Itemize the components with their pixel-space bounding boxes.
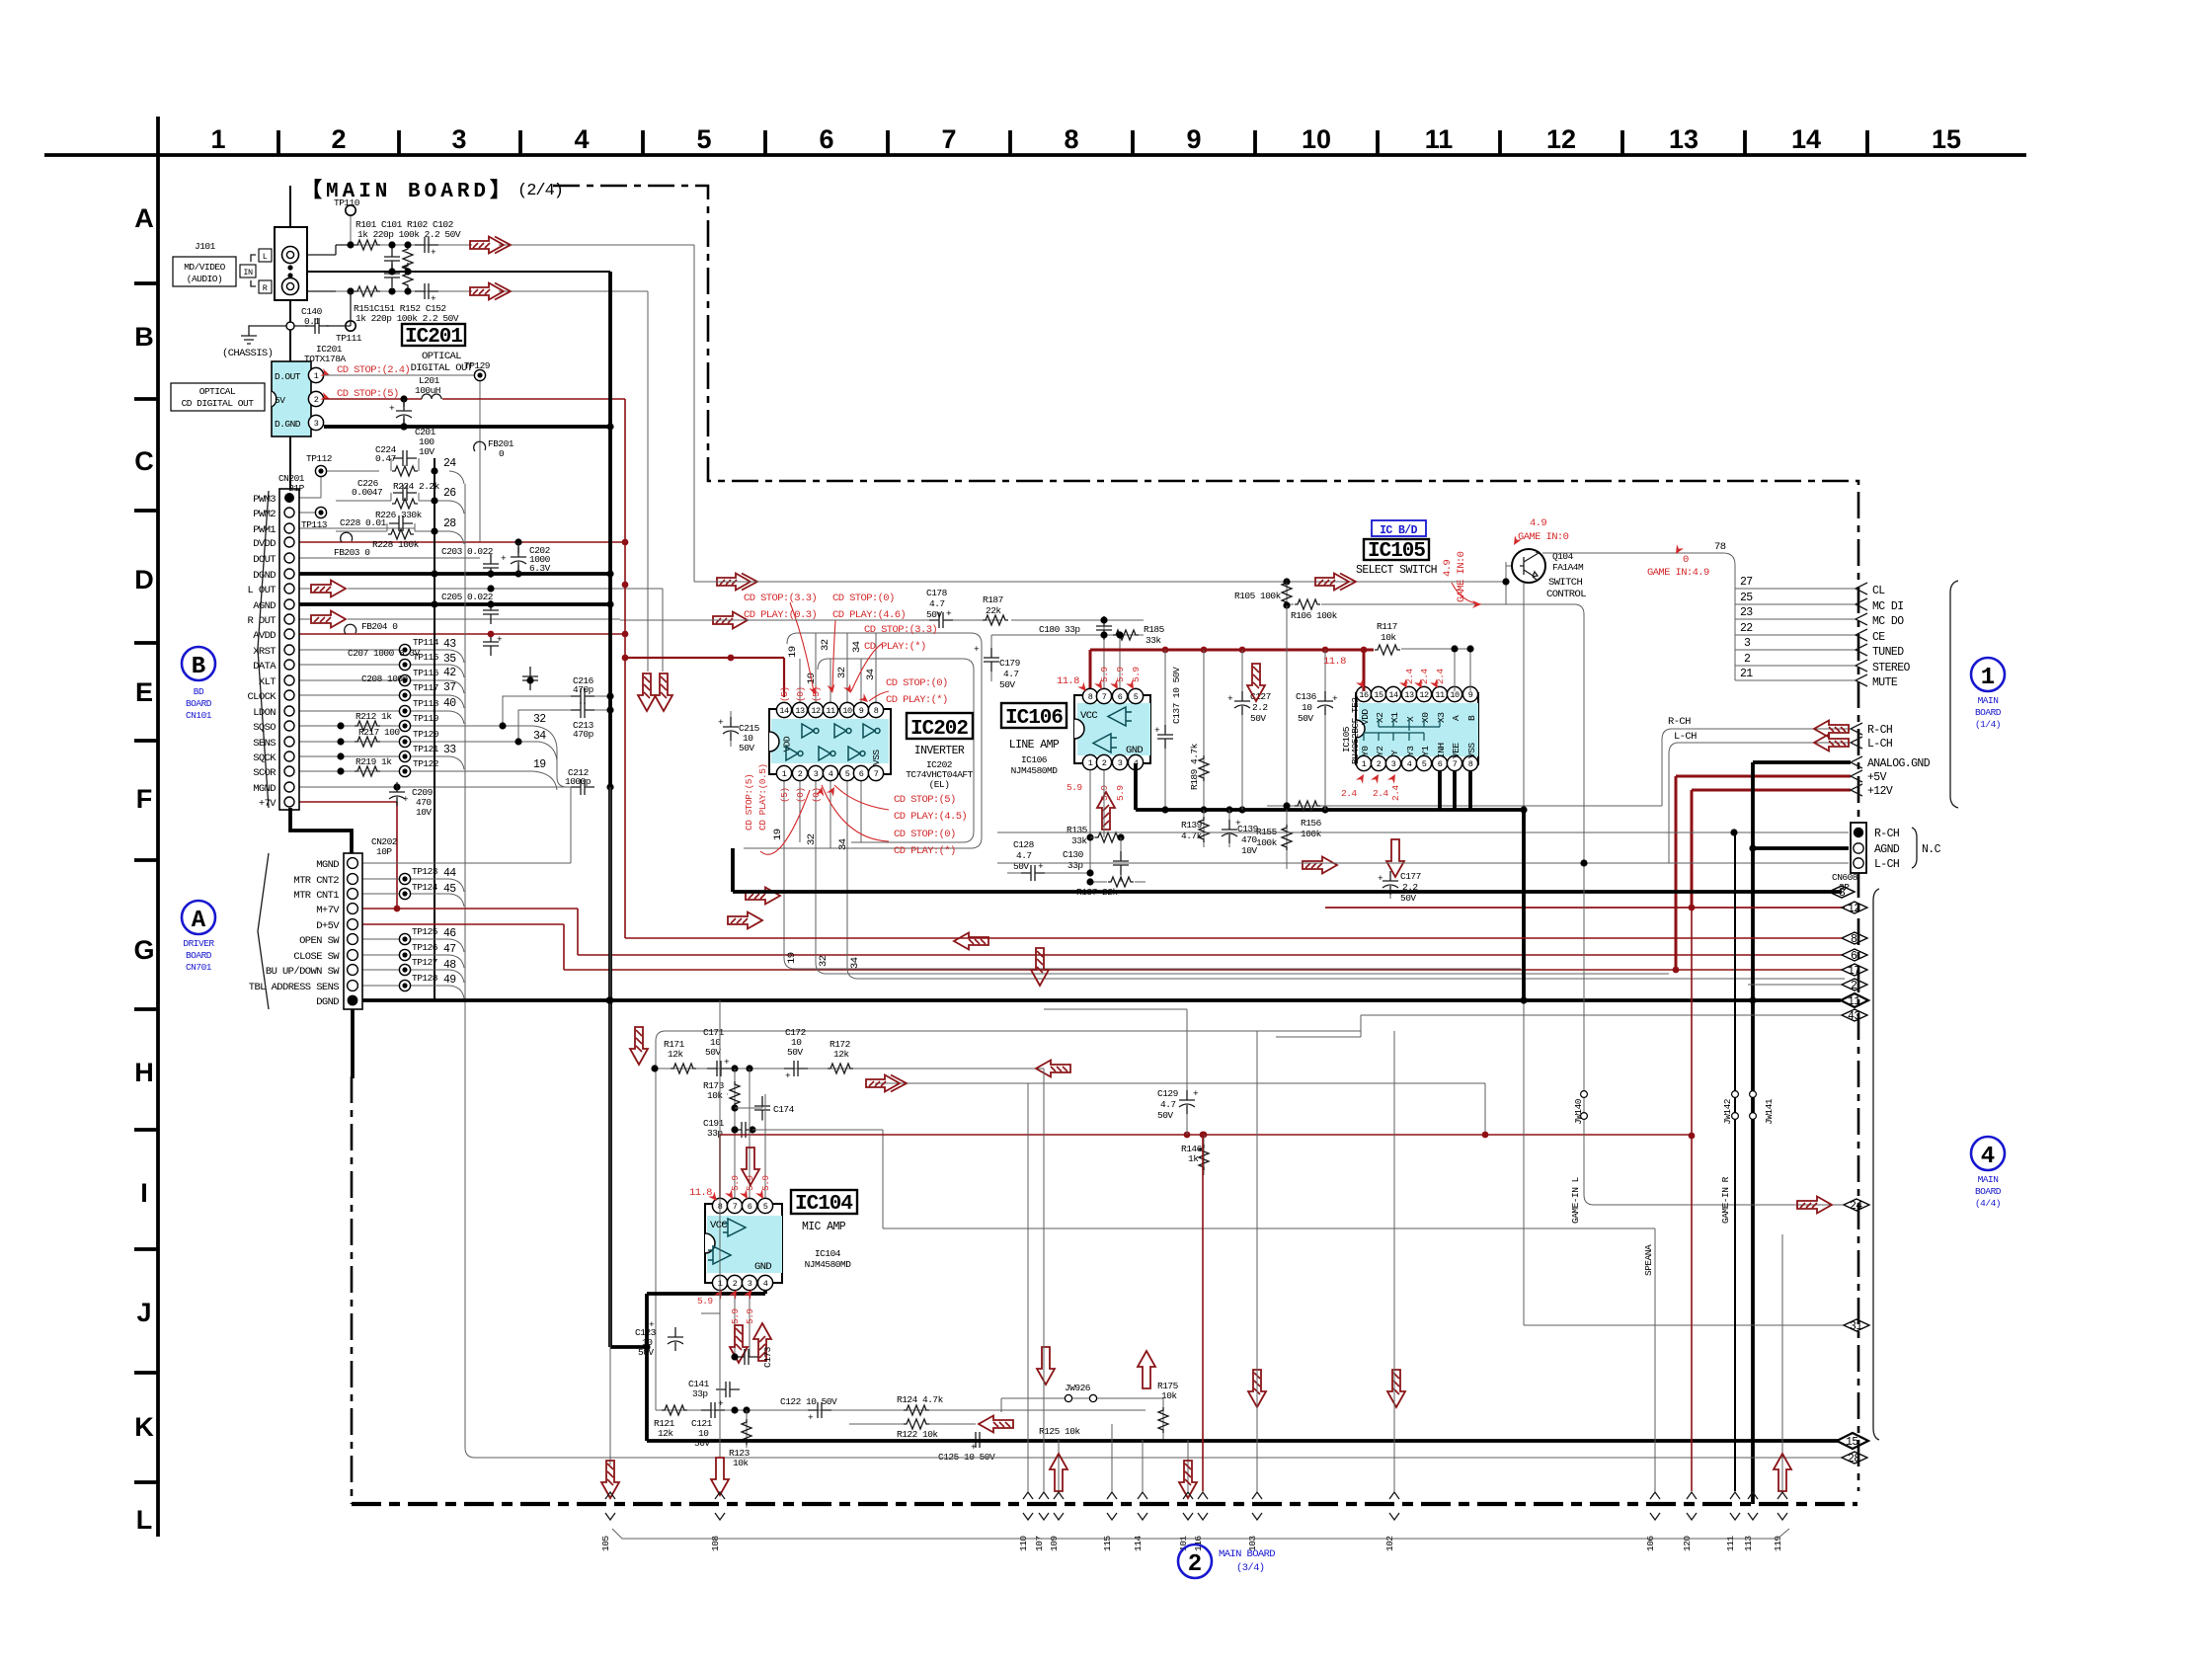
svg-text:19: 19 xyxy=(533,758,546,771)
svg-text:8: 8 xyxy=(874,706,879,716)
svg-text:+: + xyxy=(649,1319,655,1330)
svg-text:SCOR: SCOR xyxy=(253,767,276,779)
svg-text:+: + xyxy=(808,1412,814,1423)
wire: +7V red xyxy=(299,802,397,909)
svg-text:3: 3 xyxy=(1391,759,1396,769)
svg-text:7: 7 xyxy=(1102,692,1107,702)
capacitor C139 470 10V xyxy=(1228,810,1230,847)
wire: Q104 collector down xyxy=(1523,583,1525,810)
svg-text:40: 40 xyxy=(443,697,456,710)
svg-text:2.4: 2.4 xyxy=(1341,788,1357,799)
svg-text:GAME IN:0: GAME IN:0 xyxy=(1456,551,1467,602)
svg-text:114: 114 xyxy=(1133,1536,1144,1551)
svg-text:TP113: TP113 xyxy=(301,519,328,530)
svg-text:12: 12 xyxy=(1546,124,1576,154)
capacitor C172 10 50V xyxy=(784,1061,808,1076)
svg-text:15: 15 xyxy=(1932,124,1961,154)
svg-text:SWITCH: SWITCH xyxy=(1548,577,1583,589)
capacitor C141 33p xyxy=(716,1382,740,1397)
svg-text:IC106: IC106 xyxy=(1005,707,1063,730)
svg-text:CD PLAY:(*): CD PLAY:(*) xyxy=(886,694,948,706)
svg-text:0.0047: 0.0047 xyxy=(352,487,382,498)
svg-text:D+5V: D+5V xyxy=(316,920,340,932)
svg-text:34: 34 xyxy=(851,641,863,653)
wire: C178 R187 line xyxy=(620,619,1144,621)
IC106 body xyxy=(1074,695,1150,763)
svg-text:CD STOP:(5): CD STOP:(5) xyxy=(894,794,956,806)
svg-text:TP127: TP127 xyxy=(412,957,437,968)
svg-text:CD STOP:(3.3): CD STOP:(3.3) xyxy=(864,624,937,636)
svg-text:C: C xyxy=(134,446,154,476)
svg-text:BOARD: BOARD xyxy=(186,698,212,709)
red annotations CD STOP/PLAY xyxy=(744,593,967,857)
svg-text:11.8: 11.8 xyxy=(1323,656,1346,668)
wire: PWM3 to TP112 xyxy=(299,471,379,498)
svg-text:5: 5 xyxy=(1134,692,1139,702)
svg-text:TP129: TP129 xyxy=(464,360,491,371)
wire: inner loop xyxy=(818,659,974,842)
svg-text:4.7: 4.7 xyxy=(1016,850,1032,861)
resistor R212 1k xyxy=(355,721,380,731)
capacitor C129 4.7 50V xyxy=(1044,1009,1187,1135)
jumper JW926 xyxy=(1001,1397,1163,1399)
down arrow x647 xyxy=(630,1027,648,1065)
wire: red VCC bus xyxy=(1090,650,1374,695)
svg-text:DATA: DATA xyxy=(253,661,276,673)
svg-text:SQSO: SQSO xyxy=(253,722,276,734)
svg-text:C178: C178 xyxy=(926,588,948,598)
svg-text:32: 32 xyxy=(820,639,831,651)
svg-text:VSS: VSS xyxy=(1466,743,1477,758)
svg-text:R: R xyxy=(263,283,268,293)
svg-text:(1/4): (1/4) xyxy=(1975,719,2001,730)
svg-text:LINE AMP: LINE AMP xyxy=(1009,739,1060,752)
svg-text:K: K xyxy=(134,1412,154,1442)
svg-text:C228 0.01: C228 0.01 xyxy=(340,517,387,528)
svg-text:8: 8 xyxy=(1468,759,1473,769)
svg-text:33k: 33k xyxy=(1071,835,1087,846)
wire: AVDD red xyxy=(299,633,625,635)
svg-text:+: + xyxy=(403,794,409,805)
testpoint TP110 xyxy=(350,210,352,245)
svg-text:CD PLAY:(0.3): CD PLAY:(0.3) xyxy=(744,609,817,621)
IC201 label box xyxy=(402,324,465,346)
svg-text:B: B xyxy=(1466,715,1477,721)
svg-text:R217 100: R217 100 xyxy=(358,727,400,738)
svg-text:IC105: IC105 xyxy=(1368,540,1425,563)
svg-text:105: 105 xyxy=(600,1536,611,1551)
svg-text:43: 43 xyxy=(443,638,456,651)
svg-text:C173: C173 xyxy=(762,1346,773,1368)
svg-text:100uH: 100uH xyxy=(415,385,440,396)
+12V xyxy=(1692,790,1851,908)
svg-text:8: 8 xyxy=(1088,692,1093,702)
svg-text:NJM4580MD: NJM4580MD xyxy=(1011,765,1059,776)
connector J101 RCA body xyxy=(275,227,307,300)
pins 6,7,8 to GND xyxy=(1440,771,1470,810)
connector CN608 xyxy=(997,832,1849,863)
svg-text:MAIN: MAIN xyxy=(1978,695,1999,706)
svg-text:1000p: 1000p xyxy=(565,776,592,787)
svg-text:CLOCK: CLOCK xyxy=(247,691,276,703)
svg-text:NJM4580MD: NJM4580MD xyxy=(805,1259,852,1270)
capacitor C136 10 50V xyxy=(1324,650,1326,810)
svg-text:VCC: VCC xyxy=(1080,710,1097,722)
svg-text:+: + xyxy=(501,553,507,564)
svg-text:10: 10 xyxy=(1302,124,1331,154)
svg-text:35: 35 xyxy=(443,653,456,666)
svg-text:10: 10 xyxy=(1302,702,1312,713)
svg-text:1k: 1k xyxy=(1188,1153,1199,1164)
resistor R135 33k xyxy=(1095,832,1121,842)
svg-text:XRST: XRST xyxy=(253,646,276,658)
resistor R137 22k xyxy=(1090,881,1145,883)
wire: bottom cluster xyxy=(656,1409,1145,1411)
board boundary dash-dot xyxy=(553,186,1858,1491)
row letters xyxy=(133,203,154,1535)
svg-text:45: 45 xyxy=(443,883,456,896)
label A board xyxy=(182,901,215,934)
svg-text:IN: IN xyxy=(243,268,253,277)
svg-text:C205 0.022: C205 0.022 xyxy=(441,592,494,602)
svg-text:108: 108 xyxy=(710,1536,721,1551)
svg-text:21: 21 xyxy=(1740,668,1753,680)
bracket for tag group xyxy=(1873,889,1879,1440)
capacitor C171 10 50V xyxy=(707,1061,731,1076)
svg-text:1k 220p 100k 2.2 50V: 1k 220p 100k 2.2 50V xyxy=(357,229,461,240)
capacitor C215 10 50V xyxy=(730,711,732,747)
svg-text:100k: 100k xyxy=(1256,837,1278,848)
resistor R187 22k xyxy=(983,615,1008,625)
svg-text:CD PLAY:(4.6): CD PLAY:(4.6) xyxy=(832,609,906,621)
svg-text:4: 4 xyxy=(763,1279,768,1289)
svg-text:MUTE: MUTE xyxy=(1872,676,1898,689)
svg-text:0: 0 xyxy=(1683,554,1689,566)
svg-text:120: 120 xyxy=(1682,1536,1693,1551)
svg-text:26: 26 xyxy=(443,487,456,500)
svg-text:50V: 50V xyxy=(926,609,942,620)
resistor R106 100k xyxy=(1295,599,1320,609)
svg-text:AGND: AGND xyxy=(1874,843,1900,856)
svg-text:Y2: Y2 xyxy=(1375,746,1385,756)
svg-text:48: 48 xyxy=(443,959,456,972)
svg-text:B: B xyxy=(192,654,205,680)
svg-text:12k: 12k xyxy=(833,1049,849,1060)
svg-text:L-CH: L-CH xyxy=(1867,738,1892,751)
svg-text:JW142: JW142 xyxy=(1722,1098,1733,1125)
svg-text:B: B xyxy=(134,322,154,352)
svg-text:15: 15 xyxy=(1374,690,1383,700)
+5V xyxy=(1676,776,1851,970)
svg-text:33p: 33p xyxy=(707,1128,723,1139)
wire: JW141 xyxy=(1750,1091,1757,1098)
svg-text:3: 3 xyxy=(1839,887,1846,900)
pin circles xyxy=(284,493,294,807)
svg-text:28: 28 xyxy=(443,517,456,530)
svg-text:34: 34 xyxy=(837,838,849,850)
svg-text:TBL ADDRESS SENS: TBL ADDRESS SENS xyxy=(249,982,340,993)
wire: GAME-IN R xyxy=(1734,832,1736,1491)
capacitor C191 33p xyxy=(732,1122,755,1138)
pin circles xyxy=(348,858,358,1006)
svg-text:2: 2 xyxy=(1851,980,1857,992)
svg-text:2.4: 2.4 xyxy=(1373,788,1388,799)
svg-text:17: 17 xyxy=(1848,965,1860,978)
svg-text:(AUDIO): (AUDIO) xyxy=(187,274,222,284)
svg-text:BOARD: BOARD xyxy=(1975,707,2002,718)
svg-text:32: 32 xyxy=(806,833,818,845)
inverter gates xyxy=(802,724,819,738)
svg-text:1: 1 xyxy=(1088,758,1093,768)
pin circles bottom 1..7 xyxy=(776,765,791,780)
wire: red 11.8 bus xyxy=(720,1134,1692,1136)
wire: vertical through RCA xyxy=(289,186,291,361)
svg-text:3: 3 xyxy=(314,419,319,429)
R-CH / L-CH lines xyxy=(1662,729,1853,863)
wire: 31 line xyxy=(1524,1324,1844,1326)
svg-text:XLT: XLT xyxy=(259,676,276,688)
svg-text:5: 5 xyxy=(1422,759,1427,769)
svg-text:CN101: CN101 xyxy=(186,710,212,721)
svg-text:(5): (5) xyxy=(811,686,822,702)
svg-text:2: 2 xyxy=(1744,653,1751,666)
svg-text:2: 2 xyxy=(733,1279,738,1289)
svg-text:(5): (5) xyxy=(779,787,790,803)
capacitor C224 / resistor R224 combo xyxy=(391,458,419,471)
label B board xyxy=(182,647,215,680)
ground (CHASSIS) xyxy=(249,326,290,336)
svg-text:R-CH: R-CH xyxy=(1867,724,1892,737)
capacitor C128 4.7 50V xyxy=(1007,872,1090,874)
svg-text:G: G xyxy=(133,935,154,965)
border ruler top xyxy=(44,153,2026,157)
svg-text:Y3: Y3 xyxy=(1405,746,1416,756)
wire: top pin stubs xyxy=(800,633,876,703)
capacitor C130 33p xyxy=(1120,851,1122,882)
resistor R124 4.7k xyxy=(904,1405,929,1415)
svg-text:470: 470 xyxy=(1241,834,1257,845)
svg-text:1: 1 xyxy=(314,371,319,381)
capacitor C151 220p xyxy=(384,264,400,287)
junction dots on +7V M+7V xyxy=(394,906,401,912)
svg-text:13: 13 xyxy=(795,706,805,716)
svg-text:CD PLAY:(0.5): CD PLAY:(0.5) xyxy=(757,763,768,831)
arrows xyxy=(1037,1347,1055,1385)
svg-text:1: 1 xyxy=(210,124,225,154)
down arrow and C177 xyxy=(1386,839,1404,877)
svg-text:A: A xyxy=(192,908,206,934)
svg-text:GAME IN:4.9: GAME IN:4.9 xyxy=(1647,567,1709,579)
svg-text:10V: 10V xyxy=(1241,845,1257,856)
fanout bus and curves with pin numbers xyxy=(449,471,464,769)
svg-text:15: 15 xyxy=(1846,1436,1858,1449)
red vertical x633 xyxy=(625,399,1842,938)
svg-text:OPTICAL: OPTICAL xyxy=(422,351,461,362)
IC104 body xyxy=(705,1204,782,1283)
svg-text:6: 6 xyxy=(1438,759,1443,769)
wire: MGND xyxy=(361,787,571,863)
svg-text:4: 4 xyxy=(1407,759,1412,769)
rotated 19/32/34 labels around IC202 xyxy=(772,639,877,969)
svg-text:DRIVER: DRIVER xyxy=(183,938,214,949)
bottom bus dash-dot thick xyxy=(352,1502,1857,1506)
svg-text:106: 106 xyxy=(1645,1536,1656,1551)
svg-text:(2/4): (2/4) xyxy=(517,182,563,200)
svg-text:X2: X2 xyxy=(1375,712,1385,723)
svg-text:3: 3 xyxy=(451,124,466,154)
capacitor C173 xyxy=(735,1349,758,1365)
svg-text:6: 6 xyxy=(1118,692,1123,702)
svg-text:OPEN SW: OPEN SW xyxy=(299,935,340,947)
svg-text:3: 3 xyxy=(748,1279,752,1289)
resistor R102 100k xyxy=(403,246,413,272)
svg-text:3: 3 xyxy=(1118,758,1123,768)
svg-text:+: + xyxy=(1378,873,1383,884)
svg-text:MC DI: MC DI xyxy=(1872,600,1904,613)
svg-text:33: 33 xyxy=(443,744,456,756)
svg-text:CD DIGITAL OUT: CD DIGITAL OUT xyxy=(182,398,255,409)
svg-text:28: 28 xyxy=(1848,1453,1860,1465)
svg-text:27: 27 xyxy=(1740,576,1753,589)
svg-text:CD STOP:(0): CD STOP:(0) xyxy=(832,593,895,604)
svg-text:12: 12 xyxy=(1848,903,1860,915)
svg-text:R139: R139 xyxy=(1181,820,1203,831)
svg-text:L-CH: L-CH xyxy=(1874,858,1899,871)
arrow on R line xyxy=(470,283,511,300)
svg-text:5: 5 xyxy=(763,1202,768,1212)
svg-text:0.47: 0.47 xyxy=(375,453,396,464)
svg-text:+: + xyxy=(785,1070,791,1081)
svg-text:MAIN: MAIN xyxy=(1978,1174,1999,1185)
wire: x618 thick to 655 xyxy=(610,272,647,1347)
wire: R171 C171 C172 R172 line xyxy=(655,1068,1044,1069)
resistor R139 4.7k xyxy=(1203,810,1205,847)
svg-text:2: 2 xyxy=(798,769,803,779)
wire: x1543 thick xyxy=(1522,810,1526,1000)
svg-text:50V: 50V xyxy=(1298,713,1313,724)
IC105 body xyxy=(1356,693,1478,764)
svg-text:24: 24 xyxy=(443,457,456,470)
svg-text:3: 3 xyxy=(814,769,819,779)
wire: C137 column xyxy=(1164,650,1166,810)
svg-text:FB203 0: FB203 0 xyxy=(334,547,370,558)
svg-text:CLOSE SW: CLOSE SW xyxy=(293,951,340,963)
stub numbers xyxy=(1740,576,1753,680)
svg-text:MGND: MGND xyxy=(253,783,276,795)
capacitor C202 1000 6.3V xyxy=(514,538,521,545)
svg-text:2: 2 xyxy=(314,395,319,405)
column numbers xyxy=(210,124,1961,154)
resistor R122 10k xyxy=(849,1423,976,1425)
svg-text:R106 100k: R106 100k xyxy=(1291,610,1338,621)
svg-text:VEE: VEE xyxy=(1451,743,1461,758)
svg-text:5.9: 5.9 xyxy=(1066,782,1082,793)
wire: long vertical from R line xyxy=(647,291,649,672)
optical device IC201 body xyxy=(272,361,311,436)
svg-text:+: + xyxy=(431,247,436,258)
svg-text:DGND: DGND xyxy=(316,996,339,1008)
svg-text:5: 5 xyxy=(845,769,850,779)
svg-text:VDD: VDD xyxy=(1360,709,1371,725)
svg-text:SELECT SWITCH: SELECT SWITCH xyxy=(1356,564,1437,577)
capacitor C178 4.7 50V xyxy=(929,612,953,628)
svg-text:+: + xyxy=(946,608,952,619)
svg-text:12: 12 xyxy=(811,706,821,716)
svg-text:5.9: 5.9 xyxy=(1115,667,1126,682)
svg-text:6: 6 xyxy=(748,1202,752,1212)
svg-text:10k: 10k xyxy=(733,1458,749,1468)
svg-text:Y1: Y1 xyxy=(1420,746,1431,756)
svg-text:BU4052BCF-TE2: BU4052BCF-TE2 xyxy=(1350,697,1361,764)
resistor R146 1k xyxy=(1203,1135,1205,1175)
ANALOG.GND xyxy=(1753,760,1851,764)
svg-text:R219 1k: R219 1k xyxy=(355,756,392,767)
wire: L channel input line xyxy=(298,245,354,255)
wire: pin1 column to R135 xyxy=(1090,770,1104,873)
svg-text:FB204 0: FB204 0 xyxy=(361,621,398,632)
arrow on R105 line xyxy=(1315,574,1356,591)
wire: bottom pin exits 19/32/34 xyxy=(784,780,1521,969)
resistor R101 1k xyxy=(355,240,380,250)
svg-text:C180 33p: C180 33p xyxy=(1039,624,1080,635)
svg-text:470p: 470p xyxy=(573,729,594,740)
label box OPTICAL CD DIGITAL OUT xyxy=(171,383,265,411)
svg-text:R156: R156 xyxy=(1301,818,1322,829)
ferrite FB201 xyxy=(474,441,486,451)
wire: D.GND thick xyxy=(324,425,610,429)
svg-text:3: 3 xyxy=(1744,637,1751,650)
svg-text:19: 19 xyxy=(787,646,799,658)
svg-text:J: J xyxy=(136,1298,151,1327)
svg-text:R187: R187 xyxy=(983,594,1003,605)
svg-text:25: 25 xyxy=(1740,592,1753,604)
wire: vertical x294 below optical xyxy=(289,436,291,489)
arrows around IC104 xyxy=(742,1148,759,1185)
svg-text:CD PLAY:(*): CD PLAY:(*) xyxy=(864,641,926,653)
svg-text:IC B/D: IC B/D xyxy=(1380,524,1418,537)
svg-text:4.7: 4.7 xyxy=(1003,669,1019,679)
bus vertical x440 xyxy=(434,458,435,999)
svg-text:5.9: 5.9 xyxy=(730,1175,741,1191)
resistor R123 10k xyxy=(746,1410,748,1448)
testpoints TP123-TP128 xyxy=(399,873,410,884)
capacitor C213 470p xyxy=(518,710,610,742)
wire: R105 line xyxy=(694,581,1506,583)
wire: H loop xyxy=(656,1031,1361,1410)
svg-text:MTR CNT2: MTR CNT2 xyxy=(293,875,339,887)
svg-text:5.9: 5.9 xyxy=(745,1308,755,1324)
svg-text:L: L xyxy=(263,252,268,262)
svg-text:C174: C174 xyxy=(773,1104,795,1115)
wire: red feed to pin 14 xyxy=(625,658,784,697)
svg-text:BOARD: BOARD xyxy=(186,950,212,961)
svg-text:7: 7 xyxy=(874,769,879,779)
svg-text:F: F xyxy=(136,784,153,814)
resistor R156 100k xyxy=(1295,801,1320,811)
svg-text:1: 1 xyxy=(1362,759,1367,769)
svg-text:TUNED: TUNED xyxy=(1872,646,1904,659)
svg-text:10V: 10V xyxy=(419,446,434,457)
svg-text:2: 2 xyxy=(1102,758,1107,768)
svg-text:(3/4): (3/4) xyxy=(1236,1562,1265,1574)
svg-text:ANALOG.GND: ANALOG.GND xyxy=(1867,757,1931,770)
svg-text:E: E xyxy=(135,677,153,707)
blue 2 MAIN BOARD xyxy=(1178,1544,1212,1578)
svg-text:4.9: 4.9 xyxy=(1442,560,1454,577)
svg-text:C122 10 50V: C122 10 50V xyxy=(780,1396,837,1407)
capacitor C101 220p xyxy=(384,247,400,271)
svg-text:102: 102 xyxy=(1384,1536,1395,1551)
